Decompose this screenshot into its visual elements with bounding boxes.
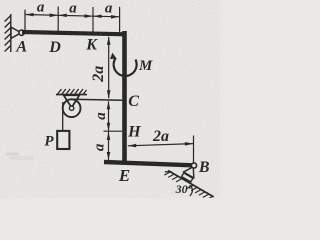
moment M arrowhead bbox=[110, 53, 116, 60]
arrowhead at D tick (right side of segment 1) bbox=[50, 13, 58, 17]
horizontal stub at incline foot bbox=[165, 171, 172, 173]
beam A to corner (top horizontal member) bbox=[22, 32, 126, 34]
pin circle at B bbox=[191, 163, 196, 168]
rope to C (horizontal) bbox=[72, 99, 123, 100]
arrowhead at D tick (left side of segment 2) bbox=[59, 14, 67, 18]
2a vertical dimension (top right) bbox=[108, 37, 110, 99]
pulley axle bbox=[69, 106, 73, 110]
wall at A (hatched) bbox=[5, 14, 11, 52]
2a dim arrowhead down (at rope C) bbox=[107, 90, 111, 98]
H tick bbox=[104, 130, 123, 132]
tick above B bbox=[193, 136, 195, 163]
pin support A (triangle) bbox=[11, 27, 21, 38]
a dim arrowhead down (at E beam) bbox=[107, 152, 111, 160]
vertical member (corner to E) bbox=[122, 31, 127, 165]
a dim arrowhead down (at H) bbox=[107, 123, 111, 131]
incline hatching bbox=[164, 170, 212, 201]
a dim arrowhead up (at C) bbox=[107, 101, 111, 109]
paper grain overlay bbox=[0, 0, 220, 198]
moment M (circular arrow) bbox=[114, 58, 137, 76]
pin circle at A bbox=[19, 30, 24, 35]
top dimension line bbox=[25, 7, 120, 34]
lower a/a vertical dimension bbox=[104, 101, 123, 160]
tick at corner bbox=[119, 7, 121, 33]
inclined surface bbox=[168, 170, 214, 196]
bottom beam E to B bbox=[104, 162, 193, 165]
tick above A bbox=[24, 10, 26, 31]
roller block bbox=[182, 173, 193, 182]
roller triangle bbox=[184, 164, 199, 178]
roller support at B bbox=[164, 156, 221, 202]
a dim arrowhead up (below H) bbox=[107, 132, 111, 140]
tick above K bbox=[92, 7, 94, 33]
arrowhead at K tick (left side of segment 3) bbox=[93, 15, 101, 19]
30 degree angle arc bbox=[190, 186, 193, 196]
ceiling hatch above pulley bbox=[56, 89, 87, 95]
pulley bracket triangle bbox=[64, 95, 80, 107]
weight P (box) bbox=[57, 131, 69, 149]
faint smudge bottom-left bbox=[6, 153, 34, 161]
arrowhead at A tick (left) bbox=[25, 13, 33, 17]
2a dim arrowhead right (at B tick) bbox=[185, 142, 193, 146]
2a horizontal dimension (bottom) bbox=[128, 136, 194, 163]
arrowhead at corner tick (right) bbox=[111, 15, 119, 19]
rope down to weight bbox=[62, 102, 64, 131]
arrowhead at K tick (right side of segment 2) bbox=[84, 14, 92, 18]
2a dim arrowhead left (at member) bbox=[128, 144, 136, 148]
tick above D bbox=[57, 7, 59, 32]
2a dim arrowhead up (at beam) bbox=[107, 37, 111, 45]
pulley wheel bbox=[63, 99, 81, 117]
